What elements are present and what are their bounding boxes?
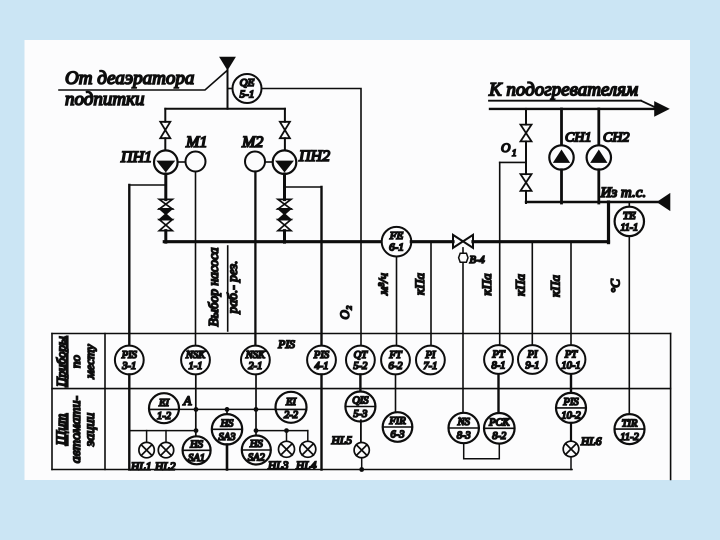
pump ПН1 [154, 150, 178, 174]
lamp HL2 [158, 442, 173, 457]
svg-text:FE: FE [389, 230, 404, 242]
instrument PI 9-1 [518, 345, 547, 374]
svg-text:QE: QE [240, 77, 255, 89]
svg-text:2-1: 2-1 [248, 361, 262, 372]
svg-text:HL3: HL3 [267, 460, 289, 472]
wire: O1 branch to network header [525, 191, 527, 203]
node: label СН1 [565, 131, 591, 146]
wire: HL4 drop [307, 431, 309, 442]
wire: СН1 riser [560, 109, 563, 145]
wire: main header middle [411, 240, 453, 243]
svg-text:10-1: 10-1 [561, 361, 580, 372]
svg-text:ПН1: ПН1 [120, 149, 152, 166]
svg-text:HL6: HL6 [580, 436, 602, 448]
wire: M2 signal down to NSK 2-1 [254, 172, 256, 346]
wire: lamp bus HL3 HL4 [256, 430, 308, 432]
node: label М2 [241, 134, 263, 151]
valve: O1 upper valve [521, 125, 532, 142]
valve: ПН2 discharge valve 2 [278, 220, 291, 231]
wire: pump ПН2 to motor M2 [265, 161, 273, 163]
node: label кПа (PI 9-1) [512, 274, 527, 296]
valve B-4 on main header [453, 235, 473, 248]
node: dot on HS SA1 line [194, 428, 199, 433]
node: label кПа (PI 7-1) [412, 273, 427, 295]
node: label м3/ч [376, 273, 391, 296]
wire: main header riser to network line [607, 202, 610, 243]
svg-text:NS: NS [457, 417, 471, 428]
instrument NS 8-3 [449, 413, 479, 443]
node: A [183, 393, 192, 408]
svg-text:кПа: кПа [512, 274, 527, 296]
node: label М1 [185, 134, 207, 151]
svg-text:О₂: О₂ [337, 305, 352, 319]
wire: main header left [164, 240, 381, 243]
instrument EI 2-2 [276, 392, 307, 423]
node: arrow to heaters [655, 102, 668, 115]
wire: FE 6-1 signal to FT 6-2 [396, 257, 398, 346]
node: label О1 [501, 140, 517, 158]
instrument TE 11-1 (temperature element) [615, 207, 644, 236]
svg-text:HL2: HL2 [154, 461, 176, 473]
wire: tap to PT 10-1 [570, 242, 572, 346]
node: К подогревателям (outlet label) [488, 80, 638, 101]
svg-text:М1: М1 [185, 134, 207, 151]
wire: HL3 drop [286, 431, 288, 442]
switch HS SA1 [183, 436, 211, 464]
node: label В-4 [470, 255, 486, 266]
wire: ПН1 to main header [164, 231, 167, 243]
table frame [52, 334, 671, 480]
svg-text:автомати-: автомати- [69, 395, 84, 463]
wire: СН1 drop [560, 170, 563, 203]
svg-text:FT: FT [388, 350, 402, 361]
svg-text:10-2: 10-2 [561, 411, 581, 422]
svg-text:6-2: 6-2 [389, 361, 404, 372]
wire: stub to TE 11-1 [628, 202, 630, 207]
node: label HL3 [267, 460, 289, 472]
switch HS SA2 [242, 436, 271, 465]
wire: ПН2 discharge [283, 174, 286, 200]
instrument PIS 4-1 [307, 346, 336, 375]
svg-text:8-3: 8-3 [457, 431, 471, 442]
node: row label Щит автоматизации [55, 395, 99, 463]
wire: HL2 drop [165, 431, 167, 443]
svg-text:TIR: TIR [622, 418, 638, 429]
wire: QIS 5-3 to HL5 [360, 420, 362, 442]
wire: PIS 10-2 to HL6 [570, 423, 572, 441]
wire: O1 sample drop to PT 8-1 [499, 162, 501, 344]
node: arrow from network [658, 194, 670, 209]
wire: lamp bus HL1 HL2 [129, 430, 196, 432]
node: label СН2 [603, 131, 629, 146]
svg-text:СН2: СН2 [603, 131, 629, 146]
node: dot on bottom bus [359, 467, 364, 472]
wire: PIS 4-1 signal down [320, 374, 322, 469]
instrument QIS 5-3 [345, 392, 375, 422]
lamp HL6 [563, 441, 579, 457]
node: label ПН2 [298, 148, 330, 165]
svg-text:ПН2: ПН2 [298, 148, 330, 165]
instrument PCK 8-2 [484, 413, 515, 444]
svg-text:PIS: PIS [121, 350, 138, 361]
svg-text:месту: месту [82, 344, 97, 380]
svg-text:по: по [68, 355, 83, 369]
wire: NSK 1-1 signal down to HS SA1 [195, 374, 197, 436]
svg-text:А: А [183, 393, 192, 408]
svg-text:PIS: PIS [277, 339, 295, 351]
valve: ПН1 discharge valve 2 [159, 220, 172, 231]
wire: СН2 riser [597, 109, 600, 145]
svg-text:В-4: В-4 [470, 255, 486, 266]
valve: ПН1 discharge valve 1 [159, 199, 172, 209]
svg-text:м³/ч: м³/ч [376, 273, 391, 296]
valve: ПН1 check valve (filled) [160, 209, 172, 220]
wire: O1 sample tap [500, 161, 526, 163]
node: row label Приборы по месту [54, 336, 98, 388]
svg-text:PIS: PIS [562, 397, 579, 408]
wire: FT 6-2 to FIR 6-3 [395, 374, 397, 412]
node: label HL4 [295, 460, 317, 472]
instrument PT 10-1 [557, 345, 586, 374]
instrument FT 6-2 [381, 346, 410, 375]
instrument PIS 3-1 [115, 346, 144, 375]
pump ПН2 [273, 150, 297, 174]
svg-text:SA3: SA3 [219, 432, 236, 443]
instrument QE 5-1 (oxygen element) [233, 74, 262, 103]
wire: junction bus A [179, 408, 276, 410]
svg-text:6-3: 6-3 [391, 430, 405, 441]
wire: inlet line from deaerator [59, 71, 227, 90]
node: label О2 [337, 305, 352, 319]
svg-text:PI: PI [424, 350, 435, 361]
svg-text:От деаэратора: От деаэратора [65, 68, 194, 89]
lamp HL4 [300, 441, 316, 457]
svg-text:HS: HS [249, 439, 264, 450]
valve: ПН1 suction valve [160, 122, 170, 138]
instrument TIR 11-2 [615, 414, 645, 444]
svg-text:зации: зации [83, 413, 98, 447]
svg-text:1-2: 1-2 [157, 411, 172, 422]
svg-text:О: О [501, 140, 511, 155]
wire: HS SA3 down to bottom bus [226, 445, 229, 470]
svg-text:7-1: 7-1 [423, 361, 437, 372]
instrument FE 6-1 (flow element) [382, 227, 412, 257]
svg-text:8-2: 8-2 [492, 431, 507, 442]
wire: СН2 drop [597, 170, 600, 203]
svg-text:9-1: 9-1 [525, 361, 539, 372]
pump СН1 [549, 145, 573, 169]
valve: ПН2 discharge valve 1 [278, 199, 291, 209]
lamp HL5 [354, 443, 369, 458]
instrument NSK 1-1 [181, 346, 210, 375]
svg-text:Из т.с.: Из т.с. [600, 185, 647, 201]
svg-text:PIS: PIS [313, 350, 330, 361]
node: note Выбор насоса раб.-рез. [206, 246, 240, 331]
lamp HL1 [139, 442, 154, 457]
svg-text:FIR: FIR [388, 416, 406, 427]
svg-text:EI: EI [285, 397, 296, 408]
wire: PT 10-1 to PIS 10-2 [570, 374, 572, 393]
wire: ПН2 to main header [283, 231, 286, 243]
instrument PI 7-1 [416, 346, 445, 375]
node: label HL2 [154, 461, 176, 473]
svg-text:кПа: кПа [548, 275, 563, 297]
svg-text:подпитки: подпитки [65, 89, 144, 110]
wire: stub to QE 5-1 [228, 88, 233, 90]
svg-text:HS: HS [220, 419, 235, 430]
wire: HL5 to bottom bus [361, 458, 363, 470]
wire: M1 signal down to NSK 1-1 [195, 172, 197, 346]
wire: suction branch header [165, 108, 285, 110]
svg-text:РТ: РТ [491, 350, 505, 361]
switch HS SA3 [212, 414, 242, 444]
motor M2 [245, 152, 265, 172]
svg-text:1-1: 1-1 [189, 361, 203, 372]
pump СН2 [587, 145, 611, 169]
svg-text:М2: М2 [241, 134, 263, 151]
instrument EI 1-2 [149, 393, 179, 423]
wire: QT 5-2 to QIS 5-3 [359, 374, 361, 392]
node: label Из т.с. [600, 185, 647, 201]
svg-text:5-1: 5-1 [240, 89, 255, 101]
wire: TE 11-1 signal to TIR 11-2 [628, 236, 630, 414]
valve: ПН2 suction valve [280, 122, 290, 138]
svg-text:2-2: 2-2 [284, 410, 299, 421]
node: label HL6 [580, 436, 602, 448]
svg-text:SA2: SA2 [248, 453, 266, 464]
svg-text:ТЕ: ТЕ [623, 210, 636, 222]
instrument NSK 2-1 [241, 346, 270, 375]
instrument PIS 10-2 [556, 393, 586, 423]
svg-text:PT: PT [564, 350, 578, 361]
wire: ПН2 pressure tap to PIS 4-1 [285, 186, 322, 188]
svg-text:Щит: Щит [55, 414, 70, 447]
svg-text:5-2: 5-2 [353, 361, 368, 372]
wire: ПН1 pressure tap to PIS 3-1 [129, 185, 166, 346]
svg-text:PI: PI [526, 350, 537, 361]
node: От деаэратора подпитки (inlet label) [65, 68, 194, 110]
svg-text:3-1: 3-1 [121, 361, 136, 372]
wire: QE 5-1 signal line to QT 5-2 [262, 89, 362, 346]
wire: bus A to HS SA3 [226, 409, 228, 414]
motor M1 [186, 152, 206, 172]
wire: valve to pump ПН2 [284, 138, 286, 150]
svg-text:СН1: СН1 [565, 131, 591, 146]
svg-text:раб.- рез.: раб.- рез. [225, 261, 240, 315]
svg-text:QT: QT [354, 350, 369, 361]
svg-text:кПа: кПа [412, 273, 427, 295]
node: label кПа (PT 8-1) [479, 273, 494, 295]
svg-text:NSK: NSK [245, 350, 266, 361]
valve: O1 lower valve [521, 174, 532, 191]
wire: PIS 3-1 signal down [128, 374, 130, 469]
svg-text:Выбор насоса: Выбор насоса [206, 247, 221, 326]
svg-text:1: 1 [512, 148, 517, 158]
wire: main suction riser [227, 69, 229, 109]
wire: HL6 to bottom bus [570, 457, 572, 470]
wire: NS 8-3 to PCK 8-2 connector [464, 443, 500, 459]
wire: main header right [473, 240, 609, 243]
wire: outlet line to heaters [489, 101, 656, 109]
svg-text:6-1: 6-1 [389, 242, 404, 254]
node: dots on HL3 bus [254, 428, 289, 433]
instrument FIR 6-3 [383, 412, 413, 442]
svg-text:SA1: SA1 [188, 453, 205, 464]
svg-text:NSK: NSK [185, 350, 206, 361]
svg-text:РСК: РСК [488, 418, 510, 429]
svg-text:HL1: HL1 [130, 461, 151, 473]
svg-text:4-1: 4-1 [315, 361, 329, 372]
svg-text:11-1: 11-1 [621, 223, 639, 234]
node: label PIS [277, 339, 295, 351]
instrument PT 8-1 [484, 345, 513, 374]
svg-text:HL5: HL5 [331, 435, 353, 447]
wire: pump ПН1 to motor M1 [178, 161, 186, 163]
wire: network return header Из т.с. [526, 201, 659, 203]
svg-text:HL4: HL4 [295, 460, 317, 472]
svg-text:HS: HS [189, 440, 204, 451]
wire: B-4 signal to NS 8-3 [462, 262, 464, 413]
node: B-4 actuator [459, 248, 468, 262]
svg-text:8-1: 8-1 [492, 361, 506, 372]
svg-text:EI: EI [158, 398, 169, 409]
wire: ПН1 discharge [164, 174, 167, 200]
wire: ПН2 suction drop [284, 109, 286, 122]
node: label ПН1 [120, 149, 152, 166]
svg-text:5-3: 5-3 [353, 409, 367, 420]
node: label кПа (PT 10-1) [548, 275, 563, 297]
wire: PT 8-1 to PCK 8-2 [497, 374, 499, 413]
wire: tap to PI 7-1 [430, 242, 432, 346]
svg-text:11-2: 11-2 [620, 432, 639, 443]
svg-text:°С: °С [608, 279, 623, 293]
wire: NSK 2-1 signal down to HS SA2 [255, 374, 257, 436]
node: junction dots on bus A [194, 407, 259, 412]
wire: O1 branch from heater line [525, 109, 527, 125]
wire: valve to pump ПН1 [164, 138, 166, 150]
lamp HL3 [279, 441, 295, 457]
instrument QT 5-2 [346, 346, 375, 375]
svg-text:Приборы: Приборы [54, 336, 69, 388]
node: label HL5 [331, 435, 353, 447]
svg-text:QIS: QIS [352, 395, 369, 406]
wire: tap to PI 9-1 [531, 242, 533, 346]
wire: HL1 drop [146, 431, 148, 443]
wire: ПН1 suction drop [164, 109, 166, 122]
valve: ПН2 check valve (filled) [279, 209, 291, 220]
wire: between O1 valves [525, 141, 527, 174]
node: label HL1 [130, 461, 151, 473]
svg-text:К подогревателям: К подогревателям [488, 80, 638, 101]
node: label °С [608, 279, 623, 293]
node: inlet arrow into riser [221, 58, 235, 70]
svg-text:кПа: кПа [479, 273, 494, 295]
